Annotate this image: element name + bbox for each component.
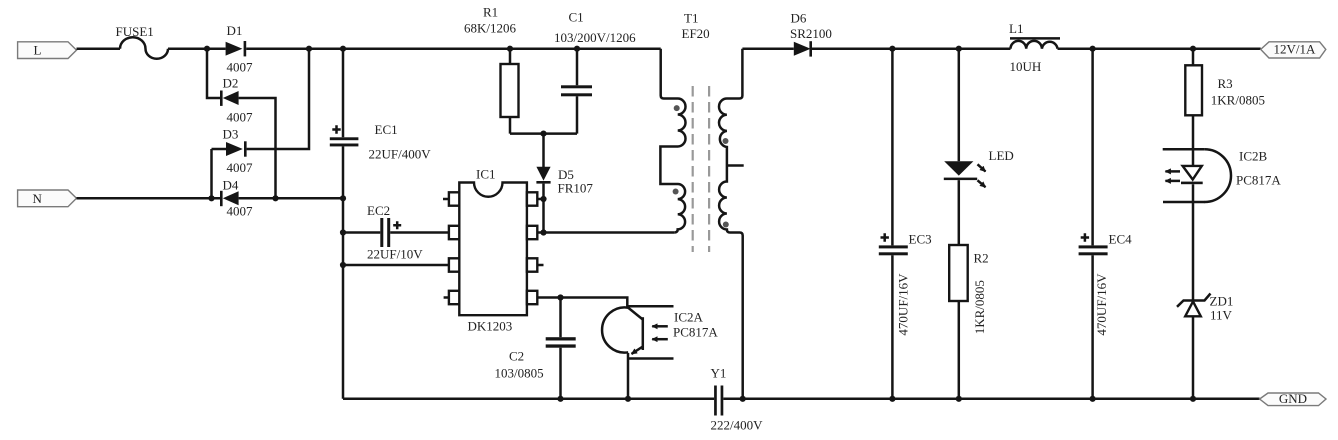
capacitor EC1: [340, 46, 346, 52]
pin 3 (left row3): [449, 258, 459, 271]
svg-text:C1: C1: [569, 10, 584, 25]
resistor R1: [507, 46, 513, 52]
light arrow into IC2A (upper): [652, 325, 668, 328]
capacitor EC2: [343, 231, 380, 234]
svg-text:10UH: 10UH: [1010, 59, 1042, 74]
diode D3: [226, 142, 243, 156]
svg-text:103/200V/1206: 103/200V/1206: [554, 30, 636, 45]
pin 4 (left row4): [449, 291, 459, 304]
svg-text:PC817A: PC817A: [673, 325, 718, 340]
node EC3 junction (top): [889, 46, 895, 52]
node C2 junction: [557, 294, 563, 300]
pin 8 (right row1): [527, 192, 537, 205]
light arrow out of IC2B (lower): [1165, 180, 1180, 183]
node secondary return junction: [740, 396, 746, 402]
wire fuse to D1: [168, 47, 226, 50]
svg-text:C2: C2: [509, 349, 524, 364]
node L junction (D1/D2): [204, 46, 210, 52]
wire D3 cathode to top rail: [247, 49, 309, 149]
capacitor EC3: [891, 49, 894, 246]
diode D5: [542, 134, 545, 167]
svg-text:PC817A: PC817A: [1236, 173, 1281, 188]
svg-text:1KR/0805: 1KR/0805: [1211, 93, 1265, 108]
svg-text:Y1: Y1: [711, 366, 727, 381]
svg-text:22UF/10V: 22UF/10V: [367, 247, 423, 262]
terminal L: [18, 42, 77, 59]
transformer T1 secondary winding: [719, 49, 743, 399]
svg-text:4007: 4007: [227, 204, 254, 219]
node EC1/N junction: [340, 195, 346, 201]
svg-text:222/400V: 222/400V: [711, 418, 764, 433]
svg-text:11V: 11V: [1210, 308, 1233, 323]
wire L to fuse: [77, 47, 121, 50]
terminal 12V/1A: [1261, 42, 1326, 58]
transformer core dashed line 1: [692, 86, 694, 252]
svg-text:LED: LED: [989, 148, 1014, 163]
svg-text:L: L: [34, 43, 42, 58]
diode D1: [226, 42, 243, 56]
primary polarity dot (upper): [674, 105, 680, 111]
diode D4: [223, 191, 239, 205]
node C2/ground junction: [557, 396, 563, 402]
svg-text:N: N: [33, 191, 43, 206]
node N / D3 junction: [208, 195, 214, 201]
svg-text:FUSE1: FUSE1: [116, 24, 154, 39]
transformer core dashed line 2: [708, 86, 710, 252]
svg-text:EC1: EC1: [375, 122, 398, 137]
terminal N: [18, 190, 77, 207]
svg-text:FR107: FR107: [558, 181, 594, 196]
pin 6 (right row3): [527, 258, 537, 271]
terminal GND: [1260, 393, 1326, 406]
diode D6: [794, 42, 811, 56]
svg-text:IC2A: IC2A: [674, 310, 704, 325]
node D5/pin junction: [540, 196, 546, 202]
wire 12V rail D6 to L1: [812, 47, 1011, 50]
wire secondary top to D6: [742, 47, 793, 50]
svg-text:EC3: EC3: [909, 232, 932, 247]
transformer T1 primary winding: [660, 49, 685, 233]
node EC4/ground junction: [1090, 396, 1096, 402]
optocoupler IC2A phototransistor: [602, 307, 628, 352]
secondary tap stub: [727, 164, 744, 167]
svg-text:D1: D1: [227, 23, 243, 38]
svg-text:D6: D6: [791, 11, 807, 26]
svg-text:EF20: EF20: [682, 26, 710, 41]
wire snubber R1-C1: [510, 132, 577, 135]
svg-text:T1: T1: [684, 11, 698, 26]
svg-text:R2: R2: [974, 251, 989, 266]
node EC2/ground-leg junction: [340, 229, 346, 235]
secondary polarity dot (upper): [723, 138, 729, 144]
secondary polarity dot (lower): [723, 222, 729, 228]
svg-text:12V/1A: 12V/1A: [1274, 42, 1317, 57]
svg-text:22UF/400V: 22UF/400V: [369, 147, 432, 162]
svg-text:IC2B: IC2B: [1239, 149, 1268, 164]
svg-text:D4: D4: [223, 178, 239, 193]
node ZD1/ground junction: [1190, 396, 1196, 402]
svg-text:EC2: EC2: [367, 203, 390, 218]
svg-text:IC1: IC1: [476, 167, 496, 182]
node R2/ground junction: [956, 396, 962, 402]
svg-text:68K/1206: 68K/1206: [464, 21, 517, 36]
light arrow out of IC2B (upper): [1165, 170, 1180, 173]
pin 1 (left row1): [449, 192, 459, 205]
node snubber/D5 junction: [540, 131, 546, 137]
node pin3 junction: [340, 262, 346, 268]
wire D2 anode to D4 branch: [239, 98, 276, 198]
light arrow into IC2A (lower): [652, 338, 668, 341]
diode D2: [223, 91, 239, 105]
LED light arrow (lower): [978, 180, 986, 187]
capacitor Y1: [714, 386, 717, 416]
pin 5 (right row4): [527, 291, 537, 304]
pin 2 (left row2): [449, 226, 459, 239]
inductor L1: [1011, 41, 1058, 49]
node D5/drain junction: [540, 229, 546, 235]
svg-text:GND: GND: [1279, 391, 1307, 406]
LED: [958, 49, 961, 162]
ground rail (secondary side): [723, 398, 1259, 401]
svg-text:4007: 4007: [227, 60, 254, 75]
svg-text:D2: D2: [223, 76, 239, 91]
ground rail (primary side): [343, 398, 714, 401]
resistor R2: [949, 245, 968, 301]
svg-text:D3: D3: [223, 127, 239, 142]
node N / D2-D4 junction: [272, 195, 278, 201]
node opto-emitter/ground junction: [625, 396, 631, 402]
svg-text:SR2100: SR2100: [790, 26, 832, 41]
svg-text:470UF/16V: 470UF/16V: [896, 273, 911, 336]
svg-text:L1: L1: [1009, 21, 1023, 36]
pin 7 (right row2): [527, 226, 537, 239]
node EC3/ground junction: [889, 396, 895, 402]
svg-text:470UF/16V: 470UF/16V: [1094, 273, 1109, 336]
zener ZD1: [1177, 294, 1211, 307]
svg-text:4007: 4007: [227, 160, 254, 175]
capacitor EC4: [1091, 49, 1094, 246]
optocoupler IC2B photodiode: [1163, 148, 1205, 151]
wire 12V rail L1 to terminal: [1058, 47, 1261, 50]
resistor R3: [1192, 49, 1195, 66]
wire N rail: [77, 197, 344, 200]
svg-text:4007: 4007: [227, 110, 254, 125]
wire HV+ top rail: [246, 47, 661, 50]
capacitor C2: [559, 298, 562, 338]
svg-text:R3: R3: [1218, 76, 1233, 91]
wire D3 branch drop: [212, 149, 227, 198]
svg-text:1KR/0805: 1KR/0805: [972, 280, 987, 334]
svg-text:ZD1: ZD1: [1210, 294, 1234, 309]
wire D2 branch drop: [207, 49, 220, 98]
wire feedback: pin5 to opto collector: [537, 298, 627, 308]
capacitor C1: [574, 46, 580, 52]
node EC4 junction (top): [1090, 46, 1096, 52]
IC U1 DK1203 body: [459, 183, 527, 316]
svg-text:R1: R1: [483, 5, 498, 20]
wire pin3 to ground leg: [343, 264, 449, 267]
node R3 junction (top): [1190, 46, 1196, 52]
primary polarity dot (lower): [673, 189, 679, 195]
svg-text:DK1203: DK1203: [468, 319, 513, 334]
fuse FUSE1: [120, 37, 168, 58]
LED light arrow (upper): [978, 164, 986, 171]
svg-text:103/0805: 103/0805: [495, 366, 544, 381]
wire drain: pin7 to transformer primary: [537, 231, 674, 234]
svg-text:EC4: EC4: [1109, 232, 1133, 247]
node top rail / D3 junction: [306, 46, 312, 52]
node LED junction (top): [956, 46, 962, 52]
